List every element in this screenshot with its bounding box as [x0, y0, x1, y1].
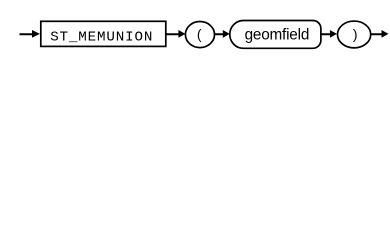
svg-text:ST_MEMUNION: ST_MEMUNION	[50, 30, 153, 46]
svg-text:): )	[353, 26, 358, 42]
arrowhead into ) bubble	[330, 30, 337, 38]
svg-text:geomfield: geomfield	[245, 26, 310, 43]
wire	[215, 33, 224, 35]
wire	[20, 33, 35, 35]
bubble )	[338, 21, 371, 48]
arrowhead terminal	[382, 30, 389, 38]
svg-text:(: (	[197, 26, 202, 42]
wire	[321, 33, 331, 35]
arrowhead into ( bubble	[178, 30, 185, 38]
bubble (	[185, 22, 214, 48]
box ST_MEMUNION	[41, 21, 166, 46]
wire	[166, 33, 180, 35]
arrowhead into ST_MEMUNION box	[32, 30, 40, 38]
wire	[371, 33, 383, 35]
arrowhead into geomfield bubble	[223, 30, 230, 38]
bubble geomfield	[230, 21, 321, 49]
railroad syntax diagram: ST_MEMUNION ( geomfield )	[0, 0, 390, 58]
